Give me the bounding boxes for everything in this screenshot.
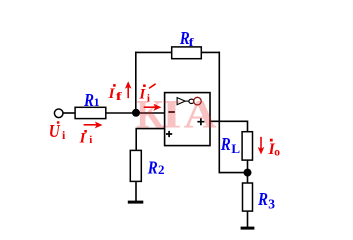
label Ui	[49, 121, 66, 142]
svg-text:U: U	[49, 121, 61, 141]
up arrow If	[127, 86, 129, 98]
svg-text:i: i	[62, 128, 66, 142]
svg-text:2: 2	[158, 162, 165, 177]
wire node A up to Rf	[135, 52, 137, 113]
ground right	[241, 227, 255, 230]
minus input sign	[168, 111, 174, 113]
label Ii input with direction arrow	[79, 130, 93, 146]
svg-text:1: 1	[94, 95, 100, 109]
wire to Rf left	[135, 51, 172, 53]
wire feedback vertical down	[218, 52, 220, 174]
resistor Rf	[172, 47, 202, 59]
svg-text:I: I	[162, 92, 182, 136]
label RL	[220, 134, 240, 156]
label If	[108, 84, 124, 103]
infinity large dark red loop	[194, 97, 202, 105]
wire Rf right to corner	[201, 51, 220, 53]
wire R1 to node A and op-amp inverting input	[106, 112, 165, 114]
resistor RL	[242, 132, 252, 160]
svg-text:I: I	[79, 130, 87, 146]
label Io with down arrow	[268, 139, 281, 159]
svg-text:f: f	[116, 89, 124, 103]
op-amp U1 body	[165, 93, 210, 146]
wire RL bottom to node B	[247, 160, 249, 173]
op-amp gain triangle	[177, 98, 185, 105]
label R3	[257, 189, 275, 212]
wire R3 to ground	[247, 211, 249, 227]
svg-text:I: I	[108, 86, 116, 102]
arrow over Ii	[84, 124, 97, 126]
svg-text:R: R	[147, 157, 158, 177]
wire plus input to R2	[136, 129, 165, 151]
plus input sign	[166, 131, 172, 137]
node A junction dot	[132, 109, 140, 117]
svg-text:i: i	[89, 134, 92, 146]
resistor R3	[243, 183, 253, 211]
wire R2 to ground	[135, 181, 137, 201]
wire op-amp output	[210, 121, 248, 132]
arrow Ii-prime	[144, 106, 156, 108]
svg-text:R: R	[83, 90, 94, 110]
resistor R1	[75, 107, 106, 118]
svg-text:K: K	[136, 93, 164, 137]
wire input to R1	[63, 112, 76, 114]
wire feedback to node B	[219, 172, 247, 174]
svg-text:A: A	[184, 93, 217, 137]
plus output sign	[197, 118, 204, 125]
ground left	[128, 201, 144, 204]
wire node B to R3	[247, 173, 249, 184]
label Ii-prime	[138, 84, 150, 104]
infinity small black loop	[189, 99, 194, 103]
terminal input	[54, 109, 63, 118]
down arrow Io	[260, 137, 262, 149]
label Rf	[179, 28, 195, 49]
svg-text:L: L	[231, 141, 240, 156]
label R2	[147, 157, 165, 177]
svg-text:R: R	[220, 134, 231, 154]
node B junction dot	[244, 169, 252, 177]
svg-text:R: R	[257, 189, 268, 209]
svg-text:3: 3	[268, 196, 275, 211]
svg-text:o: o	[274, 146, 280, 158]
resistor R2	[130, 150, 141, 181]
prime tick	[149, 84, 156, 89]
label R1	[83, 90, 99, 110]
